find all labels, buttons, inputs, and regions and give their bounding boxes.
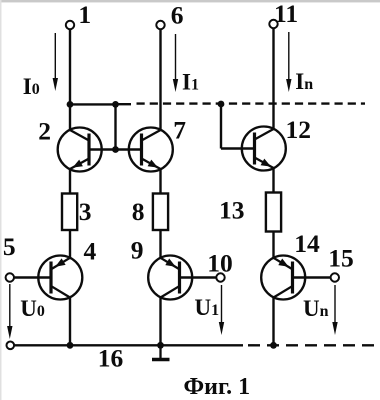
svg-text:16: 16: [98, 344, 124, 373]
terminal 10: [216, 273, 224, 281]
transistor Q4 circle: [38, 256, 82, 300]
svg-text:14: 14: [294, 229, 320, 258]
transistor Q12 base bar: [253, 133, 256, 165]
transistor Q9 circle: [148, 256, 192, 300]
node dot Q14/dashed bus: [270, 342, 277, 349]
transistor Q9 emitter arrow: [165, 259, 175, 267]
transistor Q7 emitter diagonal: [142, 159, 161, 170]
svg-text:1: 1: [78, 0, 91, 29]
scan edge top: [0, 0, 380, 2]
scan edge left: [0, 0, 2, 400]
svg-text:U0: U0: [20, 296, 45, 321]
transistor Q7 collector diagonal: [142, 130, 161, 141]
transistor Q9 emitter diagonal: [161, 258, 180, 269]
node dot terminal1/bus: [67, 101, 74, 108]
svg-text:I0: I0: [23, 74, 40, 99]
wire Q12 emitter to R13: [272, 169, 274, 193]
transistor Q12 circle: [242, 127, 286, 171]
resistor R13: [266, 193, 281, 232]
transistor Q12 emitter diagonal: [255, 158, 274, 169]
svg-text:Un: Un: [303, 296, 329, 321]
arrowhead I1: [173, 79, 178, 92]
transistor Q4 emitter diagonal: [52, 258, 71, 269]
wire top bus solid segment: [70, 103, 116, 105]
transistor Q12 collector diagonal: [255, 129, 274, 140]
wire Q14 collector to dashed bus: [272, 298, 274, 346]
terminal 5: [6, 273, 14, 281]
node dot base rail: [112, 146, 119, 153]
wire Q7 emitter to R8: [159, 170, 161, 194]
svg-text:3: 3: [79, 197, 92, 226]
terminal 6: [156, 21, 164, 29]
transistor Q9 base bar: [178, 262, 181, 294]
resistor R3: [62, 194, 77, 231]
transistor Q2 circle: [58, 128, 102, 172]
svg-text:I1: I1: [182, 69, 199, 94]
wire Q9 base to terminal10: [180, 276, 217, 278]
transistor Q4 collector diagonal: [52, 286, 71, 297]
arrow I0 line: [54, 33, 56, 80]
wire terminal5 to Q4 base: [14, 276, 51, 278]
terminal 1: [66, 21, 74, 29]
transistor Q14 base bar: [291, 262, 294, 294]
svg-text:12: 12: [286, 115, 312, 144]
wire R8 to Q9 emitter: [159, 230, 161, 258]
arrow U0 line: [9, 284, 11, 327]
wire Q14 base to terminal15: [293, 276, 331, 278]
svg-text:8: 8: [132, 197, 145, 226]
transistor Q14 emitter arrow: [278, 259, 288, 267]
wire terminal6 to Q7 collector: [159, 29, 161, 130]
node dot Q4/bus16: [67, 342, 74, 349]
wire base rail Q2-Q7: [89, 148, 142, 150]
wire bottom bus 16 solid: [14, 344, 243, 346]
svg-text:4: 4: [84, 236, 97, 265]
resistor R8: [153, 194, 168, 231]
wire Q9 collector to bus 16: [159, 298, 161, 346]
transistor Q4 base bar: [49, 262, 52, 294]
svg-text:15: 15: [328, 243, 354, 272]
svg-text:6: 6: [171, 1, 184, 30]
transistor Q14 emitter diagonal: [274, 258, 293, 269]
transistor Q2 emitter diagonal: [70, 159, 89, 170]
wire R13 to Q14 emitter: [272, 232, 274, 258]
arrowhead U1: [219, 322, 224, 335]
wire top bus dashed: [137, 102, 366, 104]
svg-text:5: 5: [3, 232, 16, 261]
wire terminal1 to Q2 collector: [69, 29, 71, 130]
wire Q2 emitter to R3: [69, 170, 71, 194]
svg-text:In: In: [295, 69, 313, 94]
arrowhead U0: [7, 326, 12, 339]
wire base riser node: [114, 104, 116, 149]
ground: [152, 345, 170, 359]
node dot Q12 base on dashed bus: [218, 101, 225, 108]
transistor Q9 collector diagonal: [161, 286, 180, 297]
svg-text:10: 10: [207, 248, 233, 277]
terminal bus-left: [7, 342, 15, 350]
wire top bus solid stub: [116, 103, 132, 105]
svg-text:U1: U1: [195, 295, 220, 320]
node dot Q9/bus16: [157, 342, 164, 349]
transistor Q4 emitter arrow: [55, 258, 65, 266]
transistor Q12 emitter arrow: [261, 159, 271, 167]
arrow I1 line: [175, 34, 177, 81]
wire Q12 base riser: [220, 104, 222, 149]
arrowhead In: [286, 79, 291, 92]
wire Q12 base lead: [221, 147, 255, 149]
transistor Q7 emitter arrow: [148, 160, 158, 168]
arrowhead I0: [53, 78, 58, 91]
svg-text:7: 7: [173, 116, 186, 145]
transistor Q2 base bar: [87, 134, 90, 166]
wire terminal11 to Q12 collector: [272, 28, 274, 129]
arrow U1 line: [221, 285, 223, 323]
wire Q4 collector to bus 16: [69, 298, 71, 346]
arrow In line: [288, 32, 290, 81]
wire R3 to Q4 emitter: [69, 230, 71, 258]
transistor Q2 emitter arrow: [73, 160, 83, 168]
node dot bus/riser: [112, 101, 119, 108]
svg-text:Фиг. 1: Фиг. 1: [184, 374, 251, 400]
transistor Q2 collector diagonal: [70, 130, 89, 141]
transistor Q7 base bar: [140, 134, 143, 166]
arrow Un line: [334, 285, 336, 323]
terminal 15: [331, 273, 339, 281]
transistor Q14 collector diagonal: [274, 286, 293, 297]
transistor Q7 circle: [129, 128, 173, 172]
svg-text:9: 9: [131, 235, 144, 264]
transistor Q14 circle: [261, 256, 305, 300]
svg-text:13: 13: [219, 195, 245, 224]
svg-text:2: 2: [38, 117, 51, 146]
terminal 11: [269, 20, 277, 28]
wire bottom bus dashed: [248, 344, 378, 346]
arrowhead Un: [332, 322, 337, 335]
svg-text:11: 11: [274, 0, 298, 28]
